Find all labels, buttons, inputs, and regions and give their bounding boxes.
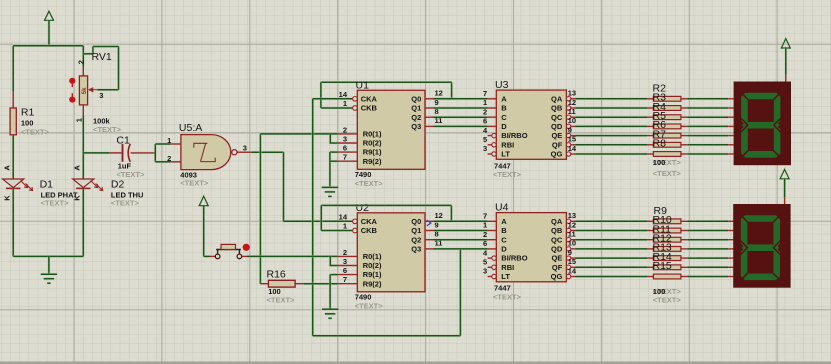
svg-text:13: 13 — [568, 211, 576, 220]
wire D2 to ground rail — [82, 188, 85, 256]
svg-text:LT: LT — [501, 150, 510, 159]
svg-text:9: 9 — [568, 248, 572, 257]
svg-text:Q0: Q0 — [411, 217, 421, 226]
resistor R4 — [653, 115, 681, 120]
svg-text:QD: QD — [551, 245, 563, 254]
svg-text:2: 2 — [483, 107, 487, 116]
wire U2 Q0 feedback to CKB — [321, 205, 451, 230]
svg-text:R16: R16 — [267, 269, 286, 281]
svg-text:<TEXT>: <TEXT> — [355, 179, 384, 188]
wire oscillator to reset line and button — [259, 134, 262, 284]
svg-text:D1: D1 — [40, 179, 54, 191]
resistor R9 — [653, 219, 681, 224]
svg-text:9: 9 — [568, 125, 572, 134]
ground U1 — [322, 187, 338, 196]
svg-text:<TEXT>: <TEXT> — [653, 169, 682, 178]
wire top rail — [13, 44, 83, 47]
svg-text:3: 3 — [483, 144, 487, 153]
svg-text:12: 12 — [435, 89, 443, 98]
resistor R6 — [653, 133, 681, 138]
svg-text:13: 13 — [568, 89, 576, 98]
wire C1 to gate inputs — [154, 144, 171, 162]
svg-text:C1: C1 — [116, 135, 130, 147]
svg-text:1: 1 — [343, 99, 347, 108]
svg-text:Q0: Q0 — [411, 94, 421, 103]
wires U4 to resistor network R9-R15 — [576, 221, 734, 276]
svg-text:2: 2 — [483, 230, 487, 239]
svg-text:CKB: CKB — [361, 226, 378, 235]
wire R1 to D1 — [12, 135, 15, 179]
svg-text:Q1: Q1 — [411, 104, 421, 113]
svg-text:<TEXT>: <TEXT> — [93, 125, 122, 134]
power arrow top-left — [45, 11, 54, 46]
svg-text:7: 7 — [483, 212, 487, 221]
svg-text:14: 14 — [339, 213, 348, 222]
svg-text:15: 15 — [568, 257, 576, 266]
resistor R2 — [653, 96, 681, 101]
power arrow button — [199, 196, 208, 256]
svg-text:10: 10 — [568, 239, 576, 248]
labels resistor network R9-R15 — [653, 205, 682, 304]
svg-text:14: 14 — [339, 90, 348, 99]
resistor R3 — [653, 106, 681, 111]
svg-text:R9(2): R9(2) — [363, 157, 382, 166]
svg-text:5k: 5k — [82, 87, 88, 94]
LED D2 — [73, 165, 144, 208]
svg-text:QF: QF — [552, 263, 563, 272]
svg-text:Q2: Q2 — [411, 235, 421, 244]
svg-text:5: 5 — [483, 258, 487, 267]
wire R1 branch down — [12, 46, 15, 108]
wire U2 Q3 to U1 CKA — [313, 99, 461, 336]
svg-text:U3: U3 — [495, 79, 509, 91]
resistor R11 — [653, 237, 681, 242]
svg-text:6: 6 — [483, 117, 487, 126]
svg-text:<TEXT>: <TEXT> — [355, 302, 384, 311]
NAND gate U5:A (4093) — [167, 122, 251, 187]
svg-text:1: 1 — [483, 98, 487, 107]
svg-text:7447: 7447 — [494, 161, 511, 170]
svg-text:QA: QA — [551, 217, 563, 226]
resistor R12 — [653, 247, 681, 252]
svg-text:QG: QG — [551, 272, 563, 281]
svg-text:R9(1): R9(1) — [363, 270, 382, 279]
svg-text:<TEXT>: <TEXT> — [116, 170, 145, 179]
wire U1 R0 line — [260, 134, 337, 143]
svg-text:A: A — [501, 217, 507, 226]
svg-text:R8: R8 — [653, 138, 667, 150]
svg-text:U2: U2 — [356, 202, 370, 214]
svg-text:R0(1): R0(1) — [363, 252, 382, 261]
svg-text:<TEXT>: <TEXT> — [111, 199, 140, 208]
svg-text:5: 5 — [483, 135, 487, 144]
svg-text:QD: QD — [551, 122, 563, 131]
svg-text:D2: D2 — [111, 179, 125, 191]
svg-text:C: C — [501, 235, 507, 244]
svg-text:QA: QA — [551, 94, 563, 103]
svg-text:Q3: Q3 — [411, 245, 421, 254]
svg-text:6: 6 — [343, 266, 347, 275]
svg-text:11: 11 — [568, 107, 576, 116]
svg-text:1: 1 — [483, 221, 487, 230]
svg-text:CKA: CKA — [361, 94, 378, 103]
svg-text:R9(1): R9(1) — [363, 148, 382, 157]
svg-text:<TEXT>: <TEXT> — [21, 127, 50, 136]
svg-text:RV1: RV1 — [92, 51, 112, 63]
wire U2 R9 to ground — [330, 275, 337, 309]
svg-text:<TEXT>: <TEXT> — [493, 292, 522, 301]
power arrow display 2 — [780, 169, 789, 204]
svg-text:B: B — [501, 104, 507, 113]
svg-text:RBI: RBI — [501, 140, 514, 149]
wires U3 to resistor network R2-R8 — [576, 99, 734, 154]
power arrow display 1 — [781, 39, 790, 82]
svg-text:2: 2 — [167, 154, 171, 163]
7-segment display 1 — [734, 82, 791, 166]
svg-text:<TEXT>: <TEXT> — [180, 178, 209, 187]
resistor R5 — [653, 124, 681, 129]
svg-text:R1: R1 — [21, 107, 35, 119]
svg-text:6: 6 — [343, 144, 347, 153]
svg-text:<TEXT>: <TEXT> — [653, 295, 682, 304]
svg-text:QC: QC — [551, 113, 563, 122]
resistor R13 — [653, 256, 681, 261]
svg-text:R0(2): R0(2) — [363, 261, 382, 270]
svg-text:R0(1): R0(1) — [363, 130, 382, 139]
svg-text:100: 100 — [21, 119, 34, 128]
svg-text:11: 11 — [568, 230, 576, 239]
svg-text:6: 6 — [483, 239, 487, 248]
wire U1 R9 to ground — [330, 152, 338, 187]
wires U2 Q outputs to U4 inputs — [434, 221, 497, 249]
svg-text:3: 3 — [243, 143, 247, 152]
svg-text:CKB: CKB — [361, 104, 378, 113]
svg-text:BI/RBO: BI/RBO — [501, 131, 527, 140]
7490 counter U2 — [337, 202, 442, 311]
svg-text:2: 2 — [343, 125, 347, 134]
svg-text:2: 2 — [343, 248, 347, 257]
svg-text:QF: QF — [552, 140, 563, 149]
resistor R8 — [653, 152, 681, 157]
wire RV1 to D2 — [82, 115, 85, 179]
svg-text:7: 7 — [483, 89, 487, 98]
wire button to U2 R0 — [248, 256, 338, 265]
svg-text:K: K — [73, 195, 82, 201]
svg-text:U4: U4 — [495, 202, 509, 214]
svg-text:<TEXT>: <TEXT> — [267, 296, 296, 305]
svg-text:3: 3 — [483, 267, 487, 276]
resistor R14 — [653, 265, 681, 270]
svg-text:12: 12 — [435, 211, 443, 220]
svg-text:100k: 100k — [93, 116, 111, 125]
resistor R1 — [10, 107, 49, 137]
svg-text:QB: QB — [551, 226, 563, 235]
svg-text:3: 3 — [343, 257, 347, 266]
capacitor C1 — [83, 135, 154, 180]
svg-text:D: D — [501, 122, 507, 131]
LED D1 — [2, 165, 78, 208]
svg-text:12: 12 — [568, 220, 576, 229]
resistor R15 — [653, 274, 681, 279]
svg-text:3: 3 — [343, 134, 347, 143]
svg-text:<TEXT>: <TEXT> — [41, 199, 70, 208]
svg-text:15: 15 — [568, 135, 576, 144]
svg-text:QG: QG — [551, 150, 563, 159]
svg-text:R15: R15 — [653, 260, 672, 272]
svg-text:B: B — [501, 226, 507, 235]
svg-text:D: D — [501, 245, 507, 254]
ground U2 — [322, 309, 338, 318]
probe mark U2 Q0 — [427, 220, 431, 226]
svg-text:K: K — [2, 195, 11, 201]
svg-text:U1: U1 — [356, 79, 370, 91]
svg-text:7447: 7447 — [494, 284, 511, 293]
wire ground rail left — [13, 256, 83, 273]
7447 decoder U4 — [483, 202, 577, 302]
svg-text:C: C — [501, 113, 507, 122]
svg-text:QE: QE — [551, 254, 562, 263]
svg-text:100: 100 — [653, 158, 666, 167]
7490 counter U1 — [337, 79, 442, 188]
svg-text:Q3: Q3 — [411, 122, 421, 131]
svg-text:3: 3 — [99, 91, 103, 100]
svg-text:QB: QB — [551, 104, 563, 113]
svg-text:2: 2 — [77, 60, 86, 64]
svg-text:12: 12 — [568, 98, 576, 107]
svg-text:Q2: Q2 — [411, 113, 421, 122]
wire R16 to U2 R9(2) — [304, 282, 338, 285]
svg-text:7490: 7490 — [355, 293, 372, 302]
svg-text:7490: 7490 — [355, 170, 372, 179]
7447 decoder U3 — [483, 79, 577, 179]
wires U1 Q outputs to U3 inputs — [434, 99, 497, 127]
svg-text:QC: QC — [551, 235, 563, 244]
ground left — [41, 274, 57, 283]
svg-text:10: 10 — [568, 116, 576, 125]
svg-text:A: A — [501, 94, 507, 103]
svg-text:A: A — [73, 165, 82, 171]
svg-text:R0(2): R0(2) — [363, 139, 382, 148]
svg-text:7: 7 — [343, 153, 347, 162]
svg-text:BI/RBO: BI/RBO — [501, 254, 527, 263]
svg-text:QE: QE — [551, 131, 562, 140]
svg-text:14: 14 — [568, 266, 577, 275]
svg-text:R9(2): R9(2) — [363, 279, 382, 288]
wire gate output to U2 CKA — [251, 152, 352, 221]
7-segment display 2 — [733, 204, 790, 288]
svg-text:<TEXT>: <TEXT> — [493, 170, 522, 179]
svg-text:CKA: CKA — [361, 217, 378, 226]
svg-text:7: 7 — [343, 275, 347, 284]
resistor R16 — [260, 269, 303, 305]
labels resistor network R2-R8 — [653, 82, 682, 178]
svg-text:14: 14 — [568, 144, 577, 153]
push button — [204, 244, 250, 259]
resistor R10 — [653, 228, 681, 233]
svg-text:Q1: Q1 — [411, 226, 421, 235]
wire U1 Q0 feedback to CKB — [321, 82, 452, 108]
wire D1 to ground rail — [12, 188, 15, 256]
svg-text:LT: LT — [501, 272, 510, 281]
svg-text:A: A — [2, 165, 11, 171]
svg-text:U5:A: U5:A — [179, 122, 202, 134]
svg-text:1: 1 — [167, 136, 171, 145]
svg-text:RBI: RBI — [501, 263, 514, 272]
resistor R7 — [653, 142, 681, 147]
potentiometer RV1 — [69, 46, 121, 134]
